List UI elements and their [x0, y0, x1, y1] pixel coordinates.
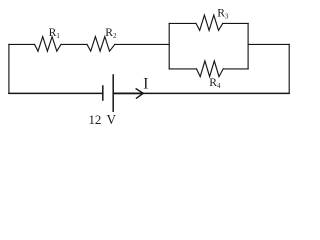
wire bottom branch left — [169, 68, 196, 70]
svg-text:12: 12 — [89, 113, 102, 127]
wire right vertical — [288, 44, 290, 93]
wire top branch right — [223, 22, 248, 24]
svg-text:R3: R3 — [217, 7, 229, 21]
wire between R1 and R2 — [61, 43, 87, 45]
wire parallel box left vertical — [168, 23, 170, 69]
wire parallel box right vertical — [247, 23, 249, 69]
wire bottom branch right — [223, 68, 248, 70]
svg-text:R2: R2 — [105, 26, 117, 40]
wire bottom left horizontal — [9, 92, 103, 94]
current arrow shaft — [114, 92, 143, 94]
wire top branch left — [169, 22, 196, 24]
resistor R4 — [197, 61, 224, 77]
svg-text:R4: R4 — [209, 76, 221, 90]
wire top-left horizontal — [9, 43, 35, 45]
wire left vertical — [8, 44, 10, 93]
svg-text:V: V — [107, 112, 117, 127]
battery negative plate (short) — [102, 86, 104, 100]
current arrowhead — [136, 89, 143, 98]
battery positive plate (long) — [112, 75, 114, 111]
resistor R1 — [35, 37, 62, 52]
wire box to right corner — [248, 43, 289, 45]
svg-text:R1: R1 — [49, 26, 61, 40]
svg-text:I: I — [143, 76, 148, 93]
wire bottom right horizontal — [113, 92, 289, 94]
resistor R3 — [196, 15, 223, 30]
wire R2 to parallel box — [115, 43, 169, 45]
resistor R2 — [87, 37, 115, 52]
